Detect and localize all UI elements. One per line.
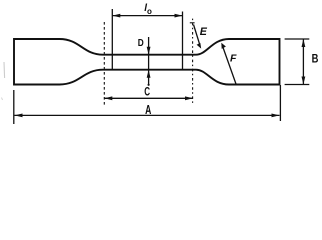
B extension line bottom bbox=[285, 84, 310, 86]
svg-text:E: E bbox=[200, 26, 208, 38]
svg-text:o: o bbox=[147, 7, 152, 16]
svg-text:D: D bbox=[138, 37, 144, 49]
svg-text:C: C bbox=[144, 86, 150, 98]
A right arrow bbox=[272, 114, 280, 118]
dimension D leader vertical bbox=[148, 37, 150, 86]
C right arrow bbox=[185, 96, 193, 100]
B top arrow bbox=[302, 39, 306, 47]
B extension line top bbox=[285, 38, 310, 40]
svg-text:F: F bbox=[230, 53, 237, 65]
l0 left arrow bbox=[112, 14, 120, 18]
dimension B line bbox=[302, 39, 304, 85]
B bottom arrow bbox=[302, 77, 306, 85]
dot at D leader bottom end bbox=[148, 84, 150, 86]
dashed shoulder line right bbox=[192, 19, 194, 105]
svg-text:B: B bbox=[312, 54, 319, 66]
svg-text:A: A bbox=[145, 103, 151, 117]
A extension line right bbox=[279, 85, 281, 121]
dashed shoulder line left bbox=[103, 22, 105, 105]
leader F arrow bbox=[223, 46, 237, 84]
faint scan streak left margin bbox=[3, 62, 6, 78]
gauge mark left (l0 extension line) bbox=[111, 9, 113, 70]
dimension C line bbox=[104, 97, 193, 99]
D bottom arrow (points up to gauge bottom edge) bbox=[147, 70, 151, 78]
dimension l0 line bbox=[112, 15, 182, 17]
l0 right arrow bbox=[175, 14, 183, 18]
dimension A line bbox=[15, 114, 280, 116]
A extension line left bbox=[13, 90, 15, 124]
faint scan speck left margin bbox=[2, 98, 3, 101]
specimen outline bbox=[14, 39, 280, 85]
leader E arrow bbox=[194, 25, 200, 45]
cross tick on right dashed line bbox=[190, 22, 195, 24]
gauge mark right (l0 extension line) bbox=[182, 12, 184, 71]
C left arrow bbox=[104, 96, 112, 100]
D top arrow (points down to gauge top edge) bbox=[147, 47, 151, 55]
A left arrow bbox=[15, 114, 23, 118]
